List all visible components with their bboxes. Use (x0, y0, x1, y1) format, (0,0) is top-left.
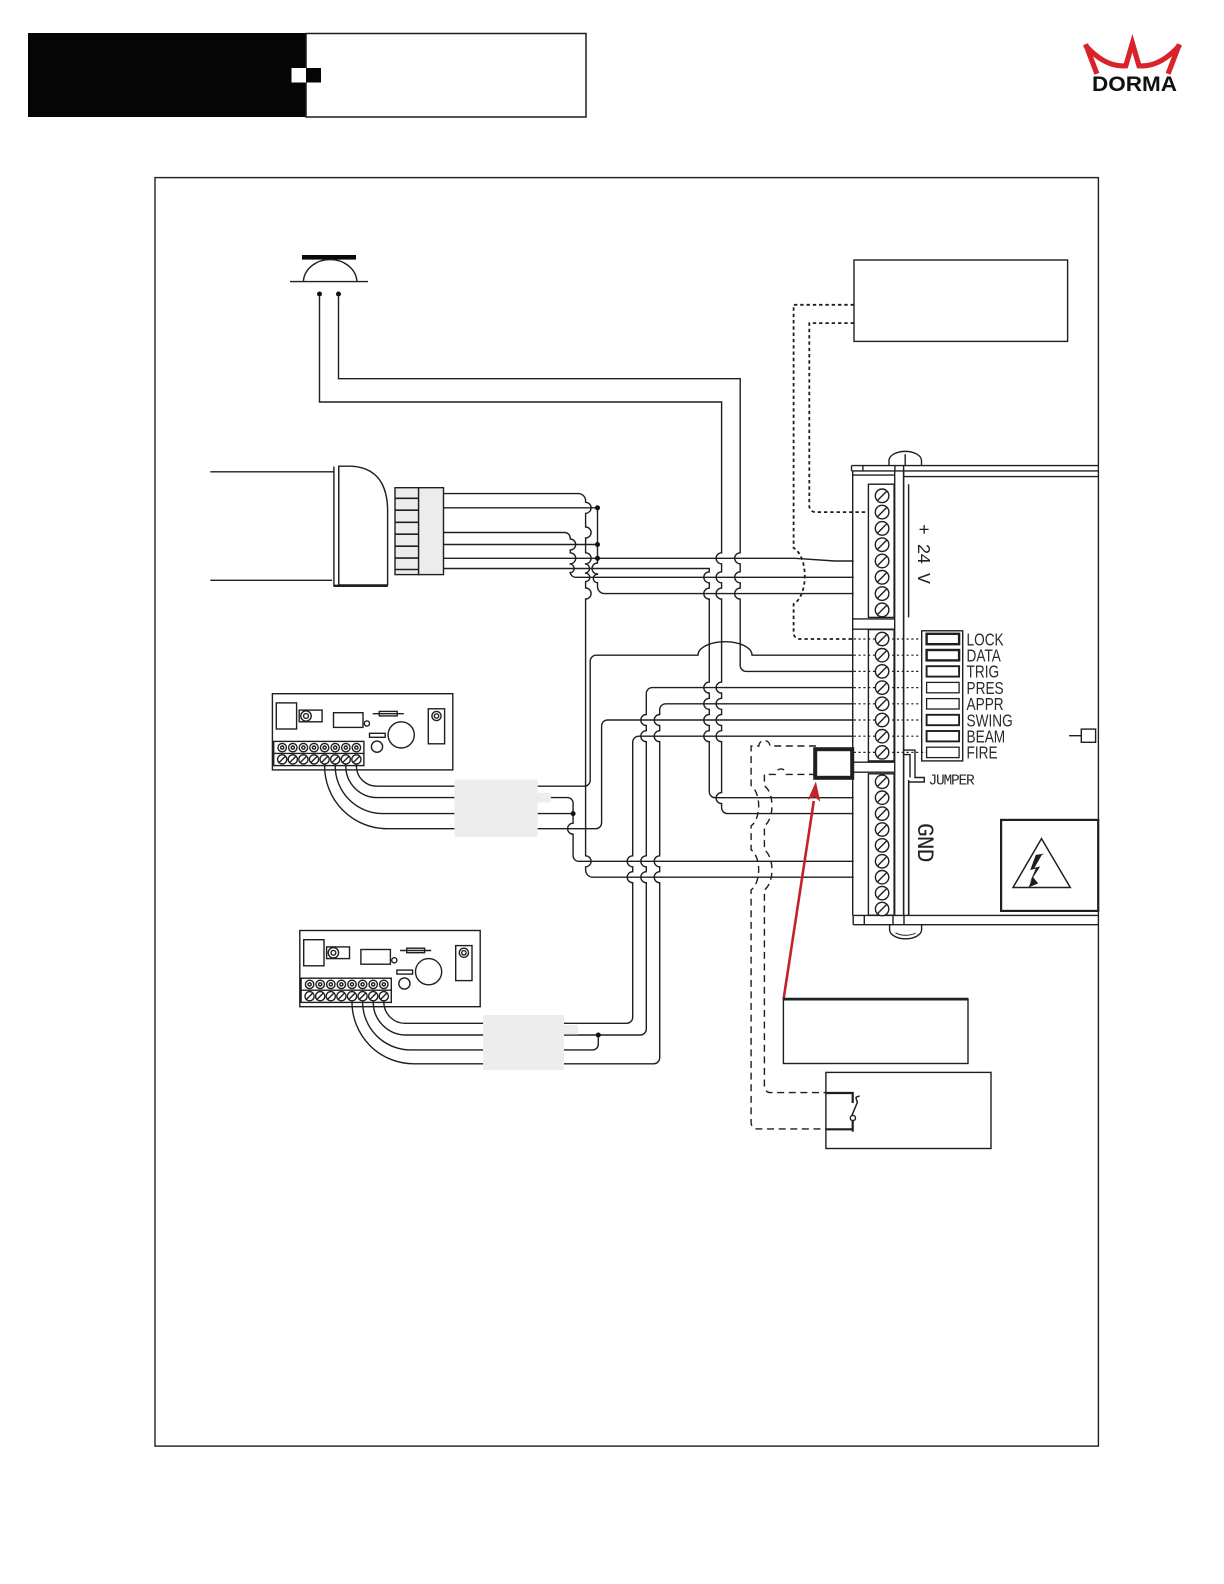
board2 label blur stub (564, 1025, 578, 1035)
controller top screw (889, 451, 922, 465)
LED box PRES (927, 682, 960, 692)
board1 label blur box (454, 780, 537, 837)
external device box top right (854, 260, 1068, 341)
board1 wire B to GND screw 6 (346, 764, 854, 861)
relay contact inside box B (826, 1093, 860, 1132)
checker black square (306, 68, 321, 83)
operator end cap (334, 466, 388, 586)
relay box A (783, 999, 968, 1064)
board2 wire D to APPR (352, 704, 854, 1064)
LED box TRIG (927, 666, 960, 676)
warning lightning bolt (1029, 854, 1045, 888)
LED box DATA (927, 650, 960, 660)
board1 wire A to DATA (356, 642, 853, 787)
wire w2 connector to node trunk (444, 507, 598, 509)
dotted wire from device box to +24V screw 2 (809, 323, 868, 512)
pcb control board 1 (272, 694, 452, 770)
board1 label blur stub (538, 793, 551, 803)
red jumper arrow (784, 782, 821, 1000)
pcb control board 2 (300, 931, 480, 1007)
trunk vertical with junctions (592, 508, 854, 594)
terminal block middle insert (868, 630, 894, 761)
board1 wire D to SWING (325, 720, 854, 829)
controller top band (852, 466, 1099, 471)
wire w5 connector through trunk to +24V screw 5 (444, 558, 854, 561)
push button wire left to GND screw 3 (320, 297, 854, 814)
controller bottom band (853, 915, 1098, 924)
junction dot board2 C-B (596, 1033, 601, 1038)
service connector right side (1069, 729, 1096, 742)
dashed wire jumper to box B lower (751, 741, 826, 1129)
jumper plug black rect (815, 749, 852, 778)
operator housing body (210, 472, 334, 581)
LED box LOCK (927, 634, 960, 644)
svg-text:FIRE: FIRE (967, 744, 998, 763)
terminal screws +24V block (875, 489, 889, 617)
controller main body (904, 471, 1099, 916)
push button S1 top bar (302, 255, 356, 260)
terminal screws middle block (875, 632, 888, 759)
LED box BEAM (927, 731, 960, 741)
board2 label blur box (483, 1015, 564, 1070)
jumper bracket (904, 750, 924, 915)
wire w1 connector to GND screw 7 (444, 494, 854, 878)
LED box FIRE (927, 747, 960, 757)
dotted stubs middle rows (854, 639, 927, 752)
svg-text:GND: GND (911, 823, 937, 862)
terminal screws GND block (875, 775, 888, 916)
LED box APPR (927, 699, 960, 709)
board1 wire C joins wire B (335, 764, 573, 814)
junction node dot 1 (595, 505, 600, 510)
LED box SWING (927, 715, 960, 725)
svg-text:+ 24 V: + 24 V (912, 524, 932, 584)
diagram frame (155, 178, 1098, 1447)
svg-text:DORMA: DORMA (1092, 72, 1177, 96)
controller bottom screw (890, 925, 922, 939)
header black banner (28, 33, 306, 117)
relay box B (826, 1072, 991, 1148)
LED labels (967, 631, 1013, 763)
dotted wire from device box to LOCK (794, 305, 854, 639)
controller spine rail (904, 471, 909, 916)
svg-text:JUMPER: JUMPER (929, 774, 976, 790)
warning triangle (1013, 839, 1070, 888)
push button S1 base line (290, 281, 368, 283)
checker white square (292, 68, 307, 83)
push button wire right to TRIG (339, 297, 854, 672)
push button S1 contact dot right (336, 292, 341, 297)
dashed wire jumper to box B upper (764, 769, 826, 1093)
LED indicator column (922, 631, 963, 761)
terminal housing column (853, 471, 895, 916)
DORMA logo crown (1085, 43, 1179, 74)
warning box (1001, 820, 1098, 911)
push button S1 contact dot left (317, 292, 322, 297)
push button S1 dome (303, 260, 357, 282)
board2 wire B to PRES (373, 688, 854, 1035)
terminal block GND insert (868, 774, 894, 915)
board2 wire C joins wire B (363, 1001, 599, 1050)
wire w3 connector to +24V screw 6 (444, 533, 854, 578)
junction node dot 3 (595, 556, 600, 561)
board2 wire A to BEAM (384, 736, 854, 1023)
connector X1 body (419, 488, 444, 575)
junction dot board1 C-B (571, 811, 576, 816)
wire w6 connector to GND screw 2 (444, 569, 854, 798)
terminal block +24V insert (868, 484, 894, 617)
junction node dot 2 (595, 542, 600, 547)
connector X1 comb (395, 488, 419, 575)
wire w4 connector to node trunk (444, 544, 598, 546)
header white banner (306, 34, 586, 118)
